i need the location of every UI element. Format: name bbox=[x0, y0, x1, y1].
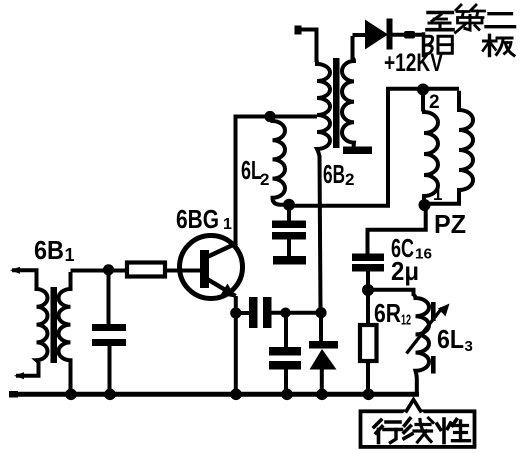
transistor emitter stroke bbox=[207, 279, 236, 296]
deflection coil PZ left winding bbox=[423, 90, 438, 205]
capacitor C1 leads bbox=[109, 271, 110, 395]
char 行 bbox=[374, 420, 402, 443]
transformer 6B2 supply stub bbox=[296, 30, 317, 63]
shunt capacitor plates bbox=[269, 347, 301, 356]
svg-text:1: 1 bbox=[65, 245, 75, 265]
wire input top bbox=[12, 270, 37, 291]
ground bus bbox=[10, 392, 419, 397]
transformer 6B2 secondary winding bbox=[342, 36, 354, 148]
callout box 行线性 bbox=[361, 411, 475, 447]
svg-text:1: 1 bbox=[223, 216, 232, 233]
diode D1 output wire bbox=[392, 33, 424, 37]
svg-text:6BG: 6BG bbox=[176, 204, 219, 234]
diode D1 triangle bbox=[365, 20, 388, 50]
svg-text:3: 3 bbox=[465, 338, 473, 355]
wire input bottom bbox=[16, 362, 39, 376]
svg-text:+12KV: +12KV bbox=[384, 49, 443, 77]
svg-text:12: 12 bbox=[401, 312, 411, 329]
ground bar under 6B2 secondary bbox=[343, 147, 372, 155]
emitter arrowhead bbox=[221, 284, 236, 298]
transformer 6B2 core bbox=[333, 58, 340, 148]
chinese text 至第二 阳极 bbox=[424, 5, 515, 56]
inductor 6L2 bbox=[270, 117, 289, 205]
svg-text:6R: 6R bbox=[374, 298, 401, 328]
diode D1 anode wire bbox=[353, 33, 367, 37]
transformer 6B1 core bbox=[51, 287, 58, 363]
collector wire up and to 6B2 tap bbox=[234, 117, 318, 245]
chinese text 行线性 bbox=[374, 418, 470, 443]
inductor 6L3 top wire bbox=[368, 290, 414, 296]
char 阳 bbox=[424, 34, 453, 56]
damper diode triangle bbox=[310, 349, 337, 370]
ground bar under C2 bbox=[273, 256, 306, 265]
transformer 6B1 secondary winding bbox=[58, 272, 70, 394]
svg-text:2: 2 bbox=[429, 92, 440, 113]
transformer 6B1 primary winding bbox=[37, 289, 48, 362]
wire PZ bottom to 6C16 bbox=[368, 205, 426, 254]
char 第 bbox=[456, 5, 485, 33]
capacitor C1 plates bbox=[92, 324, 126, 331]
transformer 6B2 primary winding bbox=[317, 60, 331, 309]
svg-text:2: 2 bbox=[260, 170, 269, 189]
transistor 6BG1 circle bbox=[180, 236, 243, 299]
wire secondary top to node bbox=[71, 269, 201, 273]
svg-text:6B: 6B bbox=[323, 159, 345, 189]
char 性 bbox=[437, 419, 470, 443]
svg-text:PZ: PZ bbox=[434, 209, 466, 239]
emitter row wire with series capacitor bbox=[236, 311, 322, 315]
capacitor C2 plates bbox=[272, 221, 306, 229]
resistor 6R12 leads bbox=[366, 290, 370, 394]
capacitor C2 lead top bbox=[287, 205, 291, 221]
deflection coil PZ right winding bbox=[424, 91, 473, 204]
resistor 6R12 box bbox=[360, 325, 377, 361]
inductor 6L3 core tick bottom bbox=[431, 356, 436, 374]
series capacitor plates bbox=[249, 297, 258, 328]
capacitor 6C16 lead bottom bbox=[366, 272, 370, 291]
svg-text:6L: 6L bbox=[241, 155, 262, 185]
diode D1 cathode bar bbox=[387, 19, 393, 50]
svg-text:2: 2 bbox=[345, 170, 354, 189]
inductor 6L3 winding bbox=[414, 295, 430, 394]
capacitor 6C16 plates bbox=[352, 254, 384, 262]
char 极 bbox=[483, 35, 514, 55]
inductor 6L3 core tick top bbox=[431, 302, 436, 321]
svg-text:2μ: 2μ bbox=[391, 256, 419, 286]
inductor 6L3 adjuster arrow bbox=[407, 308, 443, 354]
svg-text:6B: 6B bbox=[34, 235, 64, 265]
damper diode lead top bbox=[319, 313, 323, 342]
char 至 bbox=[427, 13, 453, 30]
char 二 bbox=[486, 14, 515, 27]
resistor base (box) bbox=[127, 263, 165, 277]
wire 6L2 bottom node to PZ top bbox=[289, 89, 459, 206]
damper diode lead bottom bbox=[320, 370, 324, 395]
svg-text:1: 1 bbox=[433, 185, 442, 204]
input terminal bottom arrow bbox=[14, 372, 24, 379]
transistor base bar bbox=[200, 250, 209, 288]
capacitor C2 lead bottom bbox=[287, 240, 291, 258]
emitter wire down to bus bbox=[234, 296, 238, 394]
input terminal top arrow bbox=[10, 267, 20, 274]
shunt capacitor leads bbox=[284, 313, 288, 394]
char 线 bbox=[404, 418, 433, 442]
transistor collector stroke bbox=[207, 243, 237, 257]
svg-text:6L: 6L bbox=[437, 324, 464, 354]
damper diode cathode bar bbox=[309, 341, 338, 349]
